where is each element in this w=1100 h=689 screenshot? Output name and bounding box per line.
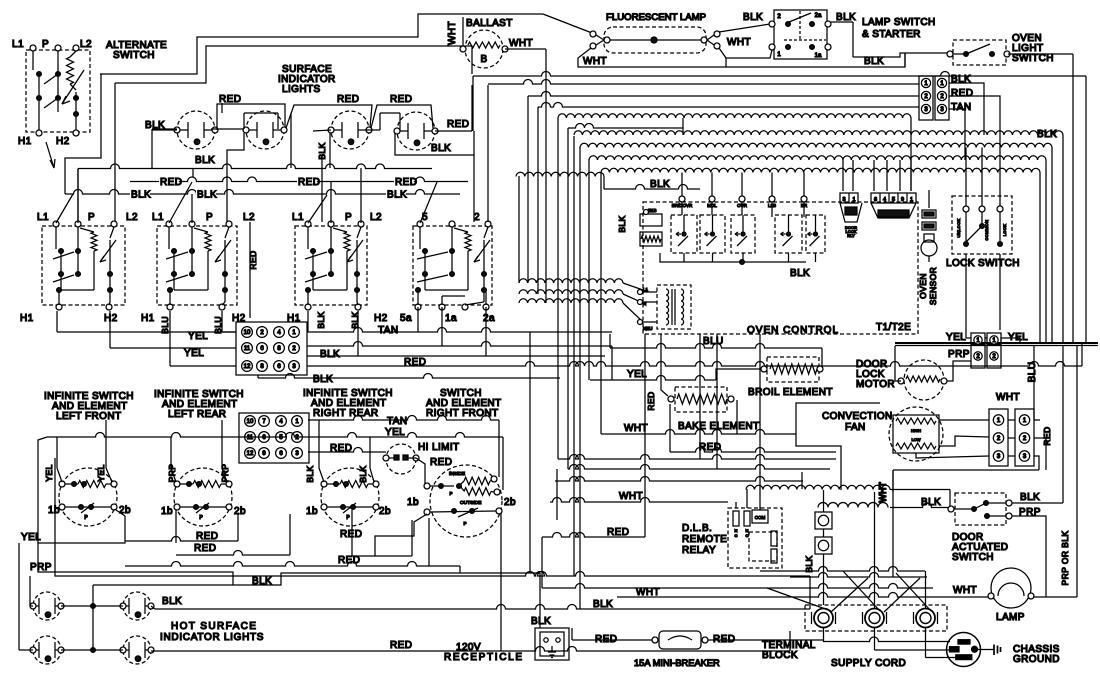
- wire lights area connects: [152, 128, 177, 130]
- svg-text:2b: 2b: [119, 505, 131, 516]
- infinite switch left front S3: [59, 468, 117, 526]
- wire thick bottom right bus: [895, 342, 1098, 344]
- wire P feed: [115, 46, 472, 83]
- wire BLK y378: [257, 375, 259, 378]
- svg-text:L1: L1: [37, 212, 49, 223]
- svg-text:SWITCH: SWITCH: [1012, 53, 1054, 64]
- svg-text:H2: H2: [104, 313, 118, 324]
- wire RED y366: [307, 362, 1082, 367]
- svg-text:FAN: FAN: [845, 422, 866, 433]
- svg-text:3: 3: [842, 197, 845, 203]
- oven control resistor: [640, 232, 662, 246]
- svg-text:H1: H1: [18, 136, 32, 147]
- svg-text:BLK: BLK: [162, 596, 182, 607]
- svg-text:L2: L2: [80, 39, 92, 50]
- svg-text:YEL: YEL: [385, 427, 405, 438]
- svg-text:BLK: BLK: [1020, 492, 1040, 503]
- svg-text:BLK: BLK: [743, 12, 763, 23]
- svg-text:1: 1: [777, 52, 781, 58]
- svg-text:WHT: WHT: [509, 38, 533, 49]
- svg-text:YEL: YEL: [96, 464, 106, 481]
- wire braid row3: [589, 156, 1046, 160]
- svg-text:SENSOR: SENSOR: [928, 267, 938, 305]
- wire light DS2 BLK: [194, 155, 214, 165]
- wire braid row1: [574, 131, 1063, 135]
- svg-text:RED: RED: [430, 457, 452, 468]
- svg-text:LIGHTS: LIGHTS: [282, 84, 321, 95]
- svg-text:PRP OR BLK: PRP OR BLK: [1060, 531, 1070, 586]
- hot surface light DS9: [123, 636, 151, 664]
- wire fan feed box: [796, 403, 880, 490]
- svg-text:YEL: YEL: [946, 332, 966, 343]
- svg-text:11: 11: [244, 346, 251, 352]
- svg-text:RELAY: RELAY: [682, 545, 716, 556]
- wire TAN y332: [307, 328, 612, 333]
- svg-text:YEL: YEL: [184, 348, 204, 359]
- svg-text:COMMON: COMMON: [984, 219, 989, 240]
- svg-text:BLK: BLK: [131, 190, 151, 201]
- svg-text:15A MINI-BREAKER: 15A MINI-BREAKER: [634, 658, 720, 668]
- svg-text:WHT: WHT: [619, 491, 643, 502]
- infinite switch right rear S5: [321, 468, 379, 526]
- svg-text:P: P: [346, 515, 350, 521]
- svg-text:LOCK: LOCK: [1002, 224, 1007, 237]
- svg-text:RED: RED: [646, 391, 656, 410]
- svg-text:WHT: WHT: [727, 37, 751, 48]
- wire braid row4: [601, 168, 1040, 172]
- wire bus y469: [568, 465, 830, 470]
- wire bus y118: [558, 114, 911, 118]
- svg-text:BLK: BLK: [358, 465, 368, 482]
- hot surface light DS6: [33, 592, 61, 620]
- wire relay commons: [660, 253, 806, 262]
- oven sensor RT1: [922, 210, 936, 218]
- svg-text:SUPPLY CORD: SUPPLY CORD: [831, 658, 906, 669]
- wire y576: [460, 572, 810, 577]
- wire door lock motor left: [895, 346, 901, 381]
- svg-text:BLK: BLK: [387, 190, 407, 201]
- svg-text:1b: 1b: [407, 497, 419, 508]
- svg-text:BLK: BLK: [836, 12, 856, 23]
- surface switch right front unit: [413, 226, 492, 305]
- svg-text:RED: RED: [298, 177, 320, 188]
- vertical drops to lock switch: [965, 148, 967, 207]
- svg-text:BALLAST: BALLAST: [466, 18, 513, 29]
- svg-text:P: P: [199, 515, 203, 521]
- wire braid left y176: [516, 172, 604, 176]
- svg-text:LEFT FRONT: LEFT FRONT: [56, 411, 121, 422]
- svg-text:BLK: BLK: [593, 599, 613, 610]
- switch right front S6: [430, 465, 502, 537]
- svg-text:RIGHT FRONT: RIGHT FRONT: [426, 408, 499, 419]
- svg-text:RECEPTICLE: RECEPTICLE: [444, 652, 524, 663]
- svg-text:P: P: [84, 515, 88, 521]
- svg-text:10: 10: [244, 330, 251, 336]
- oven control box: [643, 202, 918, 334]
- svg-text:RED: RED: [160, 177, 182, 188]
- svg-text:TAN: TAN: [378, 325, 398, 336]
- svg-text:GROUND: GROUND: [1013, 654, 1060, 665]
- svg-text:INSIDE: INSIDE: [449, 471, 465, 477]
- wire L1 feed: [100, 14, 543, 74]
- wire door actuated right PRP: [1012, 516, 1046, 597]
- svg-text:BLK: BLK: [305, 465, 315, 482]
- wire BLK bus y168: [78, 164, 432, 168]
- svg-text:2b: 2b: [234, 506, 246, 517]
- wire fan to strip: [939, 419, 989, 421]
- svg-text:2a: 2a: [815, 13, 822, 19]
- svg-text:P: P: [42, 39, 49, 50]
- wire door actuated left: [890, 503, 948, 508]
- wire hot surface row1: [61, 605, 123, 607]
- hot surface light DS7: [123, 592, 151, 620]
- wire switch4 left bottom out: [375, 514, 427, 556]
- svg-text:WHT: WHT: [953, 585, 977, 596]
- wire braids to transformer: [519, 279, 623, 283]
- svg-text:PRP: PRP: [948, 349, 970, 360]
- svg-text:L1: L1: [12, 39, 24, 50]
- svg-text:MOTOR: MOTOR: [856, 379, 895, 390]
- wire lamp right: [1033, 596, 1077, 598]
- indicator light DS3: [331, 111, 369, 149]
- wire bus y481: [555, 477, 803, 481]
- svg-text:2: 2: [777, 14, 781, 20]
- svg-text:RED: RED: [340, 529, 362, 540]
- svg-text:RED: RED: [194, 543, 216, 554]
- svg-text:RED: RED: [395, 177, 417, 188]
- svg-text:1: 1: [910, 197, 913, 203]
- svg-text:BLK: BLK: [316, 311, 326, 328]
- svg-text:WHT: WHT: [447, 21, 458, 45]
- svg-text:OUTSIDE: OUTSIDE: [460, 500, 481, 506]
- svg-text:FLUORESCENT LAMP: FLUORESCENT LAMP: [606, 12, 706, 23]
- svg-text:HOT SURFACE: HOT SURFACE: [171, 621, 257, 632]
- svg-text:WHT: WHT: [583, 56, 607, 67]
- svg-text:D.L.B.: D.L.B.: [682, 523, 712, 534]
- svg-text:TAN: TAN: [951, 102, 971, 113]
- svg-text:1b: 1b: [306, 506, 318, 517]
- svg-text:LOCK SWITCH: LOCK SWITCH: [946, 258, 1020, 269]
- wire braid row2: [580, 143, 1052, 147]
- wire bus y76: [473, 72, 1086, 77]
- wire braid row to door switch: [818, 503, 888, 508]
- wire hi limit out: [416, 458, 425, 484]
- svg-text:WHT: WHT: [624, 423, 648, 434]
- svg-text:RIGHT REAR: RIGHT REAR: [313, 408, 379, 419]
- svg-text:BLK: BLK: [197, 190, 217, 201]
- vertical drops to oven control: [681, 173, 683, 197]
- wire YEL y346: [307, 342, 612, 346]
- wire bus y128: [568, 124, 683, 129]
- svg-text:2b: 2b: [379, 506, 391, 517]
- svg-text:RED: RED: [196, 531, 218, 542]
- svg-text:H2: H2: [374, 313, 388, 324]
- terminal strip right top: [919, 76, 933, 120]
- svg-text:LOW: LOW: [911, 437, 920, 442]
- wire fuse vertical: [823, 490, 825, 512]
- svg-text:C: C: [735, 533, 738, 538]
- door lock relay wedge: [840, 203, 862, 222]
- svg-text:BLK: BLK: [313, 374, 333, 385]
- surface switch left front: [42, 226, 125, 305]
- svg-text:RED: RED: [337, 94, 359, 105]
- svg-text:5: 5: [892, 197, 895, 203]
- svg-text:PRP: PRP: [30, 562, 52, 573]
- wire switch4 2b drop: [500, 513, 502, 651]
- svg-text:H1: H1: [20, 313, 34, 324]
- svg-text:P: P: [206, 212, 213, 223]
- wire hot surface junction: [92, 585, 94, 650]
- svg-text:WHT: WHT: [878, 482, 888, 503]
- svg-text:P: P: [345, 212, 352, 223]
- wire strip col2 outputs: [949, 83, 984, 135]
- svg-text:H2: H2: [56, 136, 70, 147]
- svg-text:BLOCK: BLOCK: [762, 650, 798, 661]
- svg-text:RED: RED: [390, 94, 412, 105]
- svg-text:INDICATOR LIGHTS: INDICATOR LIGHTS: [160, 632, 264, 643]
- svg-text:5a: 5a: [400, 313, 412, 324]
- oven control relays: [671, 215, 697, 253]
- connector wedge 2: [871, 203, 916, 218]
- wire strip to strip: [1008, 419, 1015, 421]
- wire x530 long vertical: [529, 332, 531, 573]
- wire RED bus y181: [130, 177, 468, 182]
- surface switch right rear: [295, 226, 367, 305]
- wire oven light switch out: [1008, 53, 1073, 55]
- wire below terminal block: [823, 628, 825, 642]
- svg-text:L2: L2: [126, 212, 138, 223]
- svg-text:L2: L2: [370, 212, 382, 223]
- wire BLK bus y194: [65, 190, 460, 195]
- wire supply diagonals: [831, 578, 868, 612]
- svg-text:L1: L1: [152, 212, 164, 223]
- svg-text:OVEN: OVEN: [918, 273, 928, 299]
- svg-text:L1: L1: [643, 287, 649, 292]
- svg-text:TAN: TAN: [387, 416, 407, 427]
- wire box4 bottom drops: [417, 307, 419, 332]
- svg-text:L1: L1: [292, 212, 304, 223]
- svg-text:OVEN CONTROL: OVEN CONTROL: [747, 325, 839, 336]
- infinite switch left rear S4: [174, 468, 232, 526]
- wire hot light feeds: [18, 543, 20, 650]
- connector block 3-1: [840, 193, 858, 203]
- wire receptacle feeds: [539, 573, 541, 628]
- svg-text:RED: RED: [390, 640, 412, 651]
- svg-text:RED: RED: [447, 119, 469, 130]
- wire supply bus y577: [790, 573, 927, 578]
- svg-text:H1: H1: [287, 313, 301, 324]
- svg-text:B: B: [480, 54, 487, 65]
- svg-text:10: 10: [247, 419, 254, 425]
- indicator light DS1: [177, 111, 215, 149]
- svg-text:& STARTER: & STARTER: [862, 29, 921, 40]
- svg-text:UNLOCK: UNLOCK: [956, 218, 961, 237]
- fuse holder top: [815, 512, 832, 529]
- indicator light DS2: [246, 111, 284, 149]
- svg-text:SWITCH: SWITCH: [952, 552, 994, 563]
- terminal strip fan B: [1015, 409, 1034, 466]
- svg-text:SWITCH: SWITCH: [113, 50, 155, 61]
- svg-text:H1: H1: [141, 313, 155, 324]
- svg-text:WHT: WHT: [636, 587, 660, 598]
- vertical drops to connectors: [842, 160, 844, 191]
- svg-text:BLK: BLK: [431, 143, 451, 154]
- svg-text:BLK: BLK: [617, 215, 627, 232]
- wire RED bus feeds: [221, 103, 223, 113]
- svg-text:E1B: E1B: [648, 208, 657, 213]
- wire infinite tops: [57, 437, 62, 482]
- lock switch: [952, 196, 1012, 254]
- svg-text:O: O: [745, 533, 748, 538]
- svg-text:RED: RED: [951, 88, 973, 99]
- wire door lock YEL: [985, 337, 987, 339]
- svg-text:BLK: BLK: [531, 616, 551, 627]
- svg-text:BLK: BLK: [864, 56, 884, 67]
- svg-text:2: 2: [474, 212, 480, 223]
- wire supply bus y571: [760, 567, 925, 572]
- svg-text:RLY: RLY: [847, 233, 855, 238]
- svg-text:LEFT REAR: LEFT REAR: [168, 409, 226, 420]
- wire bus y96: [528, 92, 919, 97]
- svg-text:YEL: YEL: [44, 464, 54, 481]
- wire supply bus y588: [542, 584, 933, 589]
- svg-text:RED: RED: [1042, 426, 1052, 445]
- wire supply verticals: [874, 492, 876, 608]
- svg-text:P: P: [88, 212, 95, 223]
- ballast B1: [465, 30, 503, 68]
- terminal block upper: [236, 322, 307, 375]
- terminal strip fan A: [989, 409, 1008, 466]
- svg-text:9: 9: [901, 197, 904, 203]
- oven control transformer T1: [657, 285, 691, 329]
- svg-text:BLU: BLU: [160, 316, 170, 334]
- wire left BLK loop: [38, 543, 233, 585]
- svg-text:RED: RED: [607, 527, 629, 538]
- hot surface light DS8: [33, 636, 61, 664]
- svg-text:T1/T2E: T1/T2E: [876, 322, 911, 333]
- svg-text:1: 1: [852, 197, 855, 203]
- svg-text:LAMP: LAMP: [996, 612, 1025, 623]
- svg-text:WHT: WHT: [996, 392, 1020, 403]
- indicator light DS4: [397, 112, 435, 150]
- svg-text:BLU: BLU: [1027, 362, 1038, 383]
- svg-text:BLK: BLK: [804, 555, 814, 572]
- svg-text:L2: L2: [243, 212, 255, 223]
- wire bus y459: [558, 455, 836, 460]
- surface switch left rear: [157, 226, 237, 305]
- svg-text:P: P: [463, 521, 466, 526]
- supply cord plug: [947, 633, 981, 667]
- svg-text:BLK: BLK: [195, 155, 215, 166]
- wire bus y107: [538, 103, 919, 108]
- alternate switch S1: [26, 50, 90, 132]
- svg-text:BLK: BLK: [650, 179, 670, 190]
- svg-text:BLK: BLK: [790, 268, 810, 279]
- lamp switch and starter box: [774, 10, 827, 59]
- svg-text:1a: 1a: [445, 313, 457, 324]
- svg-text:2a: 2a: [483, 313, 495, 324]
- vertical right edge wires: [1072, 54, 1074, 343]
- fuse holder bottom: [815, 537, 832, 554]
- arrow to alternate switch: [46, 142, 54, 168]
- connector block 6-4-5-9-1: [871, 193, 916, 203]
- svg-text:1a: 1a: [815, 53, 822, 59]
- svg-text:COM: COM: [755, 515, 766, 520]
- vertical bundle center: [556, 469, 558, 520]
- svg-text:REMOTE: REMOTE: [682, 534, 727, 545]
- svg-text:1b: 1b: [161, 506, 173, 517]
- svg-text:BROIL ELEMENT: BROIL ELEMENT: [748, 387, 833, 398]
- svg-text:LAMP SWITCH: LAMP SWITCH: [862, 17, 936, 28]
- svg-text:12: 12: [244, 364, 251, 370]
- svg-text:HI LIMIT: HI LIMIT: [418, 442, 460, 453]
- wire box feeds top: [56, 194, 73, 223]
- svg-text:H2: H2: [232, 313, 246, 324]
- svg-text:BLK: BLK: [320, 349, 340, 360]
- svg-text:12: 12: [247, 451, 254, 457]
- svg-text:YEL: YEL: [627, 369, 647, 380]
- wire DLB feeds: [735, 502, 737, 508]
- svg-text:P: P: [449, 491, 452, 496]
- wire BLK y356: [307, 355, 605, 357]
- svg-text:CONVECTION: CONVECTION: [822, 411, 893, 422]
- svg-text:HIGH: HIGH: [911, 428, 921, 433]
- svg-text:1b: 1b: [48, 505, 60, 516]
- svg-text:RED: RED: [338, 555, 360, 566]
- wire door lock motor right: [947, 361, 971, 381]
- svg-text:4: 4: [883, 197, 886, 203]
- svg-text:YEL: YEL: [188, 331, 208, 342]
- svg-text:NEU: NEU: [643, 326, 653, 331]
- svg-text:2b: 2b: [504, 497, 516, 508]
- svg-text:6: 6: [874, 197, 877, 203]
- wire BLU oven control to broil: [610, 344, 822, 349]
- wire bus y85: [488, 80, 919, 85]
- wire door actuated right BLK: [1012, 502, 1063, 504]
- wire hot surface row2: [61, 649, 123, 651]
- terminal block lower: [239, 413, 309, 463]
- wire left drop: [65, 74, 101, 194]
- svg-text:11: 11: [247, 435, 254, 441]
